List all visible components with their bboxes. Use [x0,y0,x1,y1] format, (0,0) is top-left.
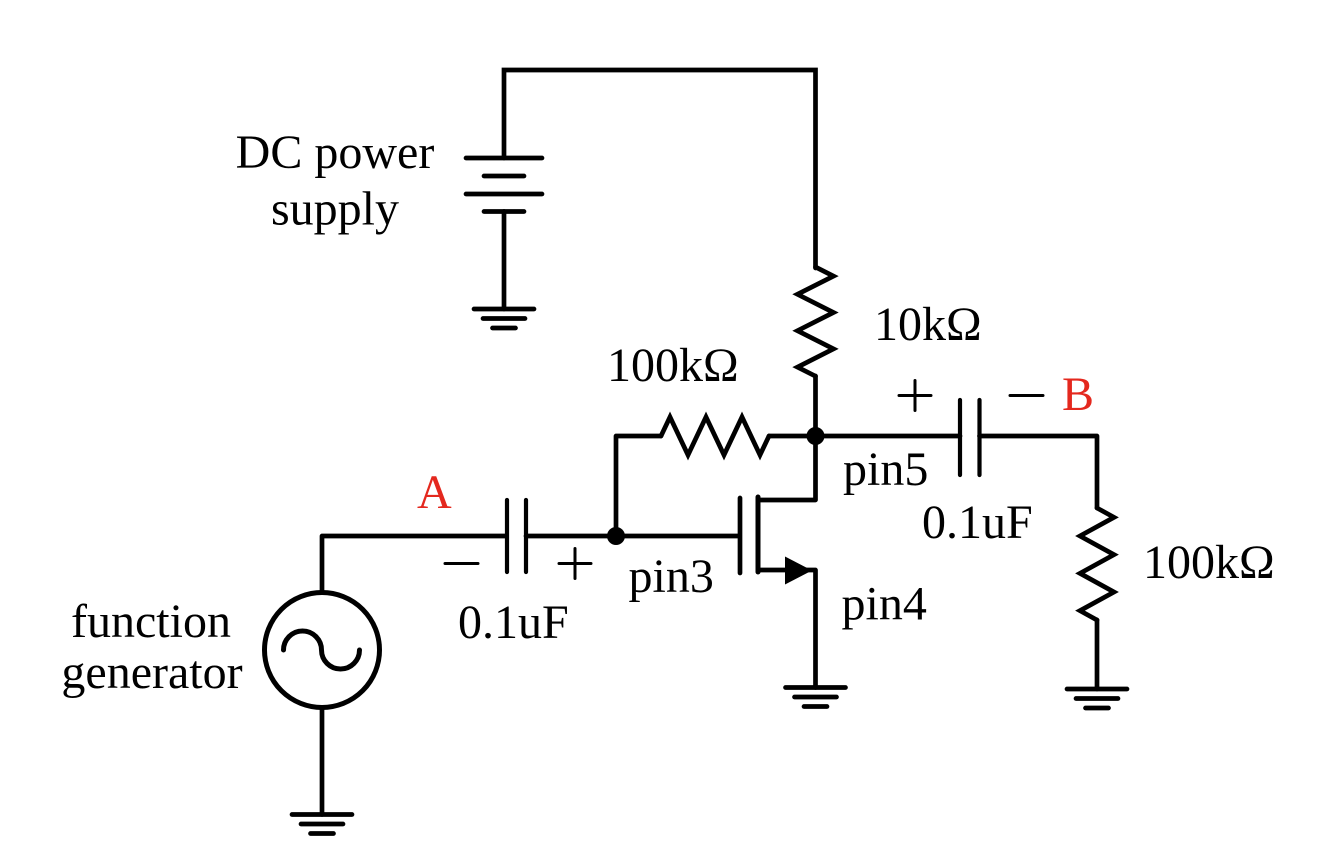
wire feedback right to node [769,434,816,439]
ground (transistor source) [786,688,846,707]
polarity minus (output cap) [1010,394,1043,397]
ground (battery) [474,309,534,328]
svg-text:100kΩ: 100kΩ [1143,536,1275,589]
wire capacitor C2 to resistor R3 [980,436,1098,508]
ground (function generator) [292,815,352,834]
label DC power supply [236,126,435,236]
resistor R2 100k (feedback) [661,417,769,455]
transistor Q1 drain link to node [758,436,816,500]
svg-text:0.1uF: 0.1uF [458,596,569,649]
wire node to capacitor C2 [816,434,961,439]
svg-text:function: function [71,595,231,648]
svg-text:supply: supply [271,183,399,236]
polarity plus (input cap) [559,549,591,579]
svg-text:A: A [417,466,452,519]
function generator source [265,593,380,708]
transistor Q1 gate bar [738,498,743,573]
node drain junction [807,427,825,445]
polarity plus (output cap) [899,381,931,411]
wire resistor R3 to ground [1095,620,1100,689]
wire function generator to capacitor C1 [322,536,505,593]
wire resistor R1 to node [813,376,818,436]
wire battery to ground [502,212,507,310]
transistor Q1 source link [758,570,816,688]
svg-text:pin3: pin3 [629,550,714,603]
transistor Q1 channel bar [756,497,761,572]
wire top rail from battery to drain resistor [504,70,816,268]
svg-text:DC power: DC power [236,126,435,179]
svg-text:generator: generator [61,646,242,699]
wire function generator to ground [320,708,325,815]
label function generator [61,595,242,699]
capacitor C2 plates [960,400,980,475]
svg-text:10kΩ: 10kΩ [874,298,982,351]
svg-text:pin4: pin4 [842,578,927,631]
wire feedback left riser [616,436,661,536]
resistor R3 100k (load) [1080,508,1114,620]
battery B1 (DC power supply) [466,158,542,212]
polarity minus (input cap) [445,562,478,565]
ground (load) [1067,689,1127,708]
svg-text:B: B [1062,368,1094,421]
svg-text:100kΩ: 100kΩ [607,339,739,392]
capacitor C1 plates [507,500,526,572]
node gate junction [607,527,625,545]
wire capacitor C1 to gate node [526,534,738,539]
resistor R1 10k (drain) [798,267,834,376]
svg-text:0.1uF: 0.1uF [922,496,1033,549]
svg-text:pin5: pin5 [843,443,928,496]
transistor Q1 source arrow [785,557,812,585]
